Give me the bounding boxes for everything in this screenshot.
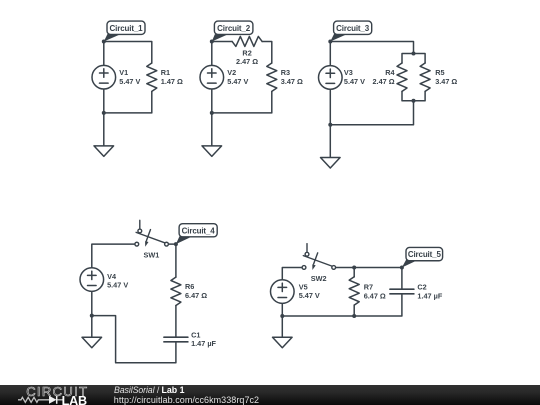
svg-text:2.47 Ω: 2.47 Ω [373, 77, 395, 86]
svg-text:R5: R5 [435, 68, 444, 77]
svg-text:Circuit_3: Circuit_3 [336, 24, 370, 33]
svg-text:Circuit_5: Circuit_5 [408, 250, 442, 259]
svg-text:Circuit_1: Circuit_1 [110, 24, 144, 33]
svg-text:R4: R4 [385, 68, 395, 77]
svg-text:5.47 V: 5.47 V [227, 77, 248, 86]
svg-text:5.47 V: 5.47 V [344, 77, 365, 86]
svg-text:V1: V1 [119, 68, 128, 77]
svg-text:SW2: SW2 [311, 274, 327, 283]
svg-text:1.47 µF: 1.47 µF [417, 291, 442, 300]
svg-text:1.47 µF: 1.47 µF [191, 339, 216, 348]
svg-text:2.47 Ω: 2.47 Ω [236, 57, 258, 66]
svg-text:V2: V2 [227, 68, 236, 77]
svg-text:Circuit_4: Circuit_4 [182, 226, 216, 235]
svg-text:5.47 V: 5.47 V [107, 281, 128, 290]
svg-text:R1: R1 [161, 68, 170, 77]
svg-text:1.47 Ω: 1.47 Ω [161, 77, 183, 86]
svg-text:V5: V5 [299, 283, 308, 292]
svg-text:C1: C1 [191, 330, 200, 339]
svg-text:6.47 Ω: 6.47 Ω [185, 291, 207, 300]
svg-text:6.47 Ω: 6.47 Ω [364, 291, 386, 300]
svg-text:SW1: SW1 [144, 251, 160, 260]
svg-text:R2: R2 [242, 48, 251, 57]
svg-text:5.47 V: 5.47 V [119, 77, 140, 86]
svg-text:C2: C2 [417, 283, 426, 292]
svg-text:V3: V3 [344, 68, 353, 77]
svg-text:R7: R7 [364, 283, 373, 292]
svg-text:3.47 Ω: 3.47 Ω [281, 77, 303, 86]
svg-text:5.47 V: 5.47 V [299, 291, 320, 300]
svg-text:3.47 Ω: 3.47 Ω [435, 77, 457, 86]
svg-text:Circuit_2: Circuit_2 [217, 24, 251, 33]
svg-text:R3: R3 [281, 68, 290, 77]
